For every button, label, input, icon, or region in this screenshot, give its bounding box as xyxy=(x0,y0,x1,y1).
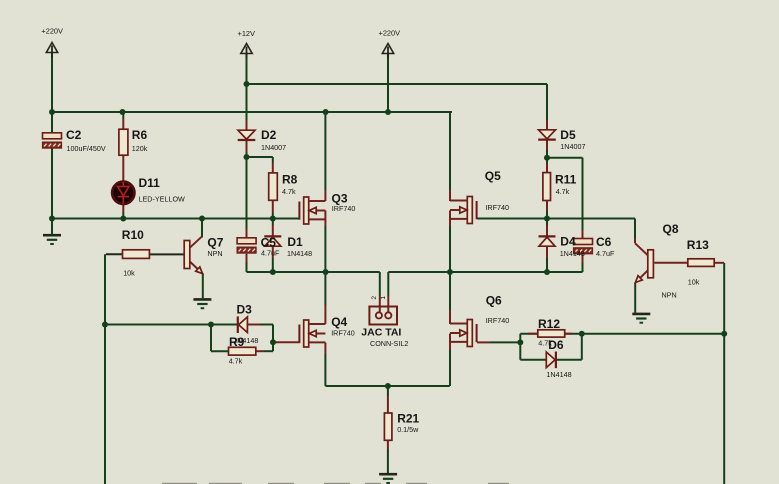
svg-text:R11: R11 xyxy=(555,173,577,187)
svg-text:D2: D2 xyxy=(261,128,277,142)
svg-text:R8: R8 xyxy=(282,173,298,187)
svg-text:IRF740: IRF740 xyxy=(486,316,510,325)
svg-text:C2: C2 xyxy=(66,128,82,142)
svg-text:1: 1 xyxy=(380,296,387,300)
svg-text:4.7k: 4.7k xyxy=(538,338,552,347)
svg-text:NPN: NPN xyxy=(662,291,677,300)
svg-text:D3: D3 xyxy=(237,302,253,316)
svg-text:R13: R13 xyxy=(687,238,709,252)
svg-text:D4: D4 xyxy=(560,235,576,249)
svg-text:4.7uF: 4.7uF xyxy=(261,248,280,257)
svg-text:2: 2 xyxy=(371,296,378,300)
svg-text:R12: R12 xyxy=(538,317,560,331)
svg-text:4.7uF: 4.7uF xyxy=(596,249,615,258)
svg-text:Q8: Q8 xyxy=(663,222,679,236)
svg-text:1N4007: 1N4007 xyxy=(560,142,585,151)
svg-text:D11: D11 xyxy=(139,176,161,190)
svg-text:1N4148: 1N4148 xyxy=(287,249,312,258)
svg-text:Q7: Q7 xyxy=(207,236,223,250)
svg-text:CONN-SIL2: CONN-SIL2 xyxy=(370,339,408,348)
svg-text:1N4148: 1N4148 xyxy=(560,249,585,258)
svg-text:Q6: Q6 xyxy=(486,294,502,308)
svg-text:R6: R6 xyxy=(132,128,148,142)
svg-text:1N4148: 1N4148 xyxy=(546,370,571,379)
svg-text:D1: D1 xyxy=(287,235,303,249)
svg-text:IRF740: IRF740 xyxy=(331,328,355,337)
svg-text:R10: R10 xyxy=(122,228,144,242)
svg-text:+12V: +12V xyxy=(238,29,256,38)
svg-text:1N4148: 1N4148 xyxy=(233,336,258,345)
svg-text:10k: 10k xyxy=(123,268,135,277)
svg-text:C6: C6 xyxy=(596,235,612,249)
svg-text:LED-YELLOW: LED-YELLOW xyxy=(139,195,186,204)
svg-text:4.7k: 4.7k xyxy=(282,187,296,196)
svg-text:NPN: NPN xyxy=(207,249,222,258)
svg-text:R21: R21 xyxy=(397,411,419,425)
svg-text:0.1/5w: 0.1/5w xyxy=(397,425,419,434)
svg-text:120k: 120k xyxy=(132,144,148,153)
svg-text:IRF740: IRF740 xyxy=(332,204,356,213)
svg-text:+220V: +220V xyxy=(379,28,401,37)
svg-text:IRF740: IRF740 xyxy=(485,203,509,212)
svg-text:4.7k: 4.7k xyxy=(556,187,570,196)
svg-text:100uF/450V: 100uF/450V xyxy=(67,144,106,153)
svg-text:+220V: +220V xyxy=(41,27,63,36)
svg-text:4.7k: 4.7k xyxy=(229,357,243,366)
svg-text:JAC TAI: JAC TAI xyxy=(361,327,401,339)
svg-text:10k: 10k xyxy=(688,278,700,287)
svg-text:1N4007: 1N4007 xyxy=(261,143,286,152)
svg-text:Q5: Q5 xyxy=(485,169,501,183)
svg-text:D5: D5 xyxy=(560,128,576,142)
svg-text:Q4: Q4 xyxy=(331,315,347,329)
